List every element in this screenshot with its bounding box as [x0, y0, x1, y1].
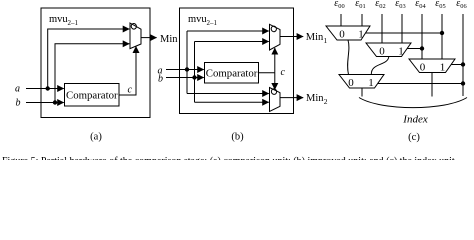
svg-text:2–1: 2–1 [68, 19, 79, 27]
svg-text:0: 0 [348, 77, 354, 89]
junction e06 select U7 [461, 62, 465, 66]
svg-text:b: b [16, 98, 21, 109]
node Min1 label [306, 32, 328, 45]
svg-text:2–1: 2–1 [207, 19, 218, 27]
svg-text:06: 06 [460, 3, 466, 10]
wire input b (b) [166, 77, 204, 79]
input b label [16, 98, 21, 109]
svg-text:2: 2 [324, 97, 328, 106]
caption (b) [231, 132, 244, 143]
index brace arc [359, 98, 467, 108]
svg-text:02: 02 [379, 3, 385, 10]
node c label [128, 85, 133, 96]
wire U7 output [431, 73, 433, 97]
wire a branch to mux [48, 29, 130, 89]
svg-text:Min: Min [306, 93, 324, 104]
svg-text:1: 1 [398, 45, 404, 57]
net e05 label [435, 0, 445, 10]
wire Min1 output [280, 36, 303, 38]
svg-text:Min: Min [306, 32, 324, 43]
net e01 label [355, 0, 365, 10]
junction e06 select U6 [461, 81, 465, 85]
wire U5 select [407, 48, 422, 50]
svg-text:c: c [128, 85, 133, 96]
svg-text:1: 1 [358, 29, 364, 41]
mvu block box (a) [41, 8, 150, 118]
junction e04 select [420, 46, 424, 50]
input a label [15, 84, 20, 95]
svg-text:a: a [15, 84, 20, 95]
svg-text:(a): (a) [90, 132, 102, 143]
input b label (b) [158, 74, 163, 85]
wire input a [26, 88, 64, 90]
wire U6 select [378, 83, 463, 85]
svg-text:c: c [281, 67, 286, 78]
node a junction [46, 86, 50, 90]
svg-text:(b): (b) [231, 132, 244, 143]
comparator X1 [65, 84, 120, 107]
svg-text:01: 01 [359, 3, 365, 10]
net e06 label [456, 0, 466, 10]
wire input a (b) [166, 69, 204, 71]
net e04 label [415, 0, 426, 10]
svg-text:0: 0 [339, 29, 345, 41]
wire e00 [340, 14, 342, 26]
svg-text:mvu: mvu [49, 14, 68, 25]
wire U6 output [361, 88, 363, 97]
wire c select down to U3 [274, 73, 276, 90]
wire a to mux U2 [187, 30, 269, 32]
node c label (b) [281, 67, 286, 78]
svg-text:05: 05 [439, 3, 445, 10]
wire input b [26, 102, 64, 104]
caption (a) [90, 132, 102, 143]
svg-text:1: 1 [440, 61, 446, 73]
wire e04 [421, 14, 423, 59]
junction e05 select [440, 31, 444, 35]
node Min label (a) [160, 34, 178, 45]
wire a to mux U3 [187, 93, 269, 95]
node a junction (b) [185, 67, 189, 71]
mux U2 [270, 24, 281, 50]
wire b vertical branch (b) [194, 42, 196, 103]
input a label (b) [158, 66, 163, 77]
mux U1 [130, 23, 141, 49]
wire e01 [361, 14, 363, 26]
comparator X2 [205, 63, 259, 84]
svg-text:03: 03 [399, 3, 405, 10]
svg-text:Comparator: Comparator [206, 67, 258, 79]
wire e06 [462, 14, 464, 96]
svg-text:1: 1 [324, 36, 328, 45]
label mvu2-1 (a) [49, 14, 79, 27]
net e02 label [375, 0, 385, 10]
net e00 label [334, 0, 344, 10]
node b junction (b) [192, 75, 196, 79]
wire e02 [381, 14, 383, 43]
svg-text:Figure 5: Partial hardware of: Figure 5: Partial hardware of the compar… [2, 156, 457, 160]
label mvu2-1 (b) [188, 14, 218, 27]
mux U6 [339, 75, 384, 89]
svg-text:00: 00 [338, 3, 344, 10]
mux U4 [326, 26, 370, 40]
wire e05 [441, 14, 443, 59]
figure caption (clipped at bottom) [2, 156, 457, 167]
svg-text:0: 0 [420, 61, 426, 73]
wire U5 output [371, 57, 389, 75]
svg-text:1: 1 [368, 77, 374, 89]
caption (c) [408, 132, 420, 143]
wire c (b) [259, 72, 275, 74]
svg-text:(c): (c) [408, 132, 420, 143]
svg-text:04: 04 [419, 3, 426, 10]
wire Min output (a) [141, 37, 157, 39]
wire b to mux U2 [195, 41, 269, 43]
svg-text:Index: Index [402, 114, 428, 126]
wire U4 output [348, 40, 349, 75]
wire a vertical branch (b) [186, 31, 188, 94]
wire U4 select [366, 32, 443, 34]
svg-text:0: 0 [379, 45, 385, 57]
svg-text:b: b [158, 74, 163, 85]
mux U7 [409, 59, 455, 73]
wire b to mux U3 [195, 101, 269, 103]
svg-text:mvu: mvu [188, 14, 207, 25]
mvu block box (b) [180, 8, 294, 114]
wire c select up to U2 [274, 48, 276, 73]
wire U7 select [451, 64, 463, 66]
svg-text:Comparator: Comparator [66, 90, 118, 102]
net e03 label [395, 0, 405, 10]
wire c select [119, 46, 136, 95]
mux U3 [270, 88, 281, 112]
node b junction [53, 100, 57, 104]
node Index label [402, 114, 428, 126]
wire e03 [401, 14, 403, 43]
wire b branch to mux [55, 44, 129, 103]
wire Min2 output [280, 97, 303, 99]
node Min2 label [306, 93, 328, 106]
svg-text:Min: Min [160, 34, 178, 45]
mux U5 [366, 43, 411, 57]
